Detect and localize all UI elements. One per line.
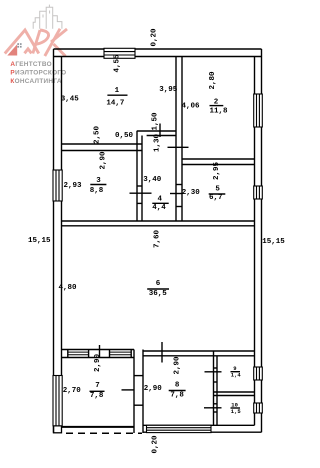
wall rooms345|room6	[62, 220, 255, 222]
svg-text:11,8: 11,8	[210, 108, 229, 116]
window W6 bottom room8	[147, 425, 212, 432]
corner block bottom-left	[54, 426, 62, 433]
rooms9,10 left wall	[213, 351, 215, 425]
svg-text:1,50: 1,50	[152, 112, 160, 131]
svg-text:4,4: 4,4	[152, 204, 166, 212]
svg-text:2,90: 2,90	[174, 356, 182, 375]
logo skyline	[33, 5, 62, 29]
door room6-room8	[161, 342, 163, 363]
svg-text:14,7: 14,7	[106, 99, 124, 107]
svg-text:5: 5	[215, 185, 220, 193]
letter A (roof)	[5, 30, 39, 54]
svg-text:8: 8	[175, 381, 180, 389]
window W1 top room1	[104, 48, 135, 58]
door room4-room2	[168, 146, 189, 148]
svg-text:2,50: 2,50	[94, 125, 102, 144]
svg-text:15,15: 15,15	[262, 238, 285, 246]
svg-text:4: 4	[158, 195, 163, 203]
logo windows	[17, 43, 21, 47]
svg-text:3,40: 3,40	[143, 176, 162, 184]
wall room1|room4	[137, 130, 176, 132]
room3 right wall	[136, 131, 138, 221]
corridor walls rooms7|8	[133, 350, 135, 434]
svg-text:0,20: 0,20	[151, 435, 159, 454]
svg-text:0,50: 0,50	[115, 132, 134, 140]
svg-text:1,5: 1,5	[231, 408, 242, 415]
svg-text:2,90: 2,90	[144, 385, 163, 393]
door room7-corridor	[122, 389, 135, 391]
svg-text:2,95: 2,95	[213, 161, 221, 180]
small house peak	[25, 49, 32, 54]
window W4 left room3	[53, 170, 62, 201]
divider wall rooms1,4|rooms2,5	[175, 57, 177, 222]
svg-text:2,30: 2,30	[182, 189, 201, 197]
svg-text:15,15: 15,15	[28, 237, 51, 245]
wall room6|rooms8,9	[143, 350, 255, 352]
outer walls	[54, 48, 262, 50]
svg-text:6,7: 6,7	[209, 194, 223, 202]
bottom walls	[143, 424, 255, 426]
svg-text:7,8: 7,8	[170, 391, 184, 399]
svg-text:8,8: 8,8	[90, 187, 104, 195]
wall room9|room10	[214, 391, 255, 393]
logo small red triangle	[7, 44, 17, 55]
door room8-room9	[205, 371, 222, 373]
PLAN LINES	[54, 49, 262, 433]
door room4-room5	[170, 193, 182, 195]
wall room2|room5	[182, 158, 255, 160]
svg-text:7,8: 7,8	[90, 392, 104, 400]
fraction underlines	[90, 95, 241, 408]
logo text	[10, 61, 66, 85]
tiny labels rooms 9,10	[231, 365, 242, 415]
windows	[53, 48, 262, 432]
letter K	[45, 29, 60, 56]
svg-text:7: 7	[95, 382, 100, 390]
svg-text:АГЕНТСТВО: АГЕНТСТВО	[10, 61, 52, 68]
window W2 right room2	[254, 94, 263, 127]
svg-text:3,45: 3,45	[61, 96, 80, 104]
door room6-room7	[99, 345, 101, 358]
svg-text:4,06: 4,06	[182, 103, 201, 111]
svg-text:2,93: 2,93	[64, 182, 83, 190]
svg-text:РИЭЛТОРСКОГО: РИЭЛТОРСКОГО	[10, 69, 66, 76]
dimension labels	[28, 28, 285, 454]
window W5 left room7	[53, 376, 62, 426]
svg-text:36,5: 36,5	[149, 290, 168, 298]
door room3-room4	[130, 192, 152, 194]
svg-text:2,70: 2,70	[63, 387, 82, 395]
window W3 right room5	[254, 186, 263, 199]
letter R stem	[33, 30, 40, 54]
letter R bowl	[36, 30, 49, 44]
svg-text:6: 6	[156, 280, 161, 288]
svg-text:2,90: 2,90	[99, 151, 107, 170]
window W7 right room10	[254, 403, 263, 413]
svg-text:0,20: 0,20	[151, 28, 159, 47]
door room8-room10	[204, 407, 222, 409]
door room1-room4	[159, 124, 161, 138]
window W8 right room9	[254, 367, 263, 380]
svg-text:3,95: 3,95	[159, 86, 178, 94]
svg-text:4,80: 4,80	[59, 284, 78, 292]
svg-text:2,80: 2,80	[209, 71, 217, 90]
svg-text:2,90: 2,90	[94, 353, 102, 372]
svg-text:1,4: 1,4	[231, 372, 242, 379]
wall room1|room3	[62, 143, 143, 145]
svg-text:1: 1	[115, 87, 120, 95]
svg-text:7,60: 7,60	[154, 229, 162, 248]
wall room6|room7	[62, 349, 135, 351]
logo ARK mark	[5, 29, 67, 57]
svg-text:1,30: 1,30	[154, 133, 162, 152]
svg-text:4,55: 4,55	[113, 54, 121, 73]
